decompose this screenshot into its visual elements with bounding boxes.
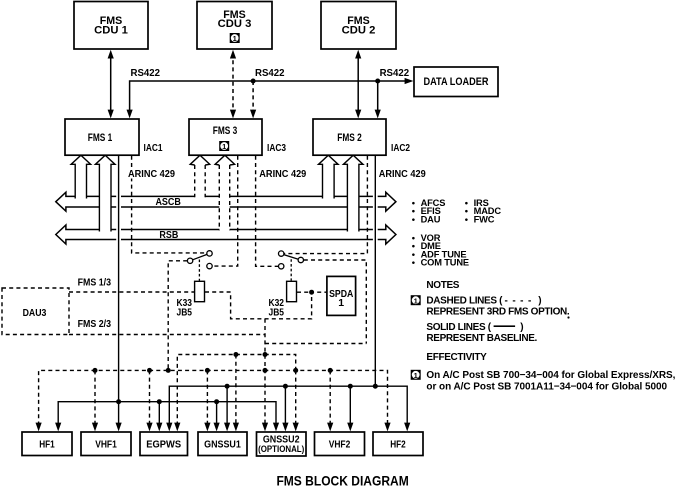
wire RS422 horizontal line — [130, 81, 407, 115]
wire D1 drop to GNSSU1 — [206, 370, 208, 425]
wire D1 drop to EGPWS — [149, 370, 151, 425]
svg-text:FMS BLOCK DIAGRAM: FMS BLOCK DIAGRAM — [276, 473, 408, 488]
box FMS CDU 2 — [321, 2, 396, 50]
junction dot RS422 at FMS3 drop — [251, 79, 256, 84]
arrowheads down into GNSSU1 — [204, 423, 239, 432]
bus label ASCB — [155, 196, 181, 208]
svg-text:FMS 3: FMS 3 — [213, 125, 238, 137]
svg-text:NOTES: NOTES — [426, 280, 459, 291]
wire RS422 drop to FMS2 — [377, 81, 379, 115]
relay K33 coil box — [195, 281, 205, 301]
label ARINC 429 under FMS3 — [258, 168, 307, 181]
svg-text:JB5: JB5 — [269, 307, 285, 319]
svg-text:1: 1 — [222, 142, 226, 151]
svg-text:EGPWS: EGPWS — [146, 438, 181, 450]
wire rail D1 — [39, 370, 388, 425]
svg-text:CDU 3: CDU 3 — [218, 18, 252, 30]
svg-text:): ) — [520, 322, 523, 333]
svg-text:HF1: HF1 — [39, 438, 55, 450]
wire H1 drop to EGPWS — [158, 402, 160, 426]
wire H2 drop to GNSSU1 — [226, 386, 228, 425]
wire K33 pole to D1 rail — [168, 261, 187, 371]
svg-text:FMS 1: FMS 1 — [88, 132, 113, 144]
svg-text:FMS 2: FMS 2 — [337, 132, 362, 144]
box VHF1 — [81, 432, 131, 456]
wire FMS3 line1 down to K33 lower throw — [213, 156, 238, 266]
wire RS422 drop to FMS3 dashed — [252, 81, 254, 115]
relay K33 lower throw circle — [207, 263, 212, 268]
wire FMS2 dashed to K32 upper throw — [284, 156, 367, 254]
svg-text:1: 1 — [338, 297, 344, 309]
relay K33 actuator dashed link — [198, 260, 200, 281]
svg-text:IAC1: IAC1 — [144, 142, 163, 154]
wire rail H1 solid — [58, 402, 276, 426]
junction dot D1-VHF1 — [93, 368, 98, 373]
box HF1 — [22, 432, 72, 456]
wire FMS 1/3 line DAU3 to K33 coil — [69, 291, 194, 293]
junction dot D1-GNSSU1 — [205, 368, 210, 373]
svg-text:(OPTIONAL): (OPTIONAL) — [258, 444, 304, 455]
label ARINC 429 under FMS2 — [378, 168, 427, 181]
svg-text:ARINC 429: ARINC 429 — [379, 168, 426, 180]
label RS422 right — [379, 67, 412, 79]
arrowheads down into GNSSU2 — [262, 423, 299, 432]
arrowheads down into FMS2 — [355, 110, 381, 119]
svg-text:FMS 2/3: FMS 2/3 — [78, 318, 112, 330]
svg-text:On A/C Post SB 700−34−004 for: On A/C Post SB 700−34−004 for Global Exp… — [426, 370, 675, 381]
hollow arrow FMS2 to RSB — [343, 155, 363, 231]
wire FMS1 solid line down to VHF1 — [118, 156, 120, 426]
box GNSSU2 (OPTIONAL) — [257, 432, 307, 456]
svg-text:ASCB: ASCB — [155, 196, 181, 208]
wire D1 drop to GNSSU2 right — [295, 370, 297, 425]
svg-text:RS422: RS422 — [380, 67, 410, 79]
effectivity icon 1 — [411, 370, 421, 380]
wire rail H2 solid — [169, 386, 407, 425]
svg-text:HF2: HF2 — [390, 438, 406, 450]
arrowhead up into CDU2 — [355, 50, 361, 59]
box FMS CDU 3 — [197, 2, 272, 50]
wire FMS1 dashed to K33 upper throw — [132, 156, 206, 253]
svg-text:ARINC 429: ARINC 429 — [128, 168, 175, 180]
label RS422 middle — [254, 67, 287, 79]
box GNSSU1 — [198, 432, 247, 456]
svg-text:DAU3: DAU3 — [23, 307, 47, 319]
wire K32 pole to D-1 rail — [304, 260, 367, 344]
heading EFFECTIVITY — [426, 352, 487, 363]
junction dot D1-VHF2 — [328, 368, 333, 373]
svg-text:DATA LOADER: DATA LOADER — [424, 76, 489, 88]
wire H1 drop to GNSSU1 — [216, 402, 218, 426]
arrowheads down into FMS3 — [230, 110, 256, 119]
svg-text:IAC2: IAC2 — [391, 142, 410, 154]
svg-text:CDU 2: CDU 2 — [342, 25, 376, 37]
white gap in bus edges where FMS1 solid wire crosses — [116, 195, 121, 241]
svg-text:FMS 1/3: FMS 1/3 — [78, 277, 112, 289]
box FMS CDU 1 — [74, 2, 148, 50]
hollow dashed arrow FMS3 to RSB — [215, 155, 235, 231]
arrowheads down into EGPWS — [146, 423, 180, 432]
junction dot H1-GNSSU1 — [214, 399, 219, 404]
wire CDU2-FMS2 double arrow — [357, 53, 359, 115]
junction dot D1-Va — [263, 368, 268, 373]
ASCB bus double-arrow band — [56, 192, 396, 211]
box SPDA 1 — [327, 276, 356, 315]
label K32 JB5 — [269, 297, 285, 319]
junction dot FMS2 line on H2 — [373, 384, 378, 389]
box FMS 2 — [313, 119, 386, 155]
arrowhead up into CDU1 — [108, 50, 114, 59]
box DAU3 dashed — [2, 288, 69, 335]
label IAC3 — [267, 142, 286, 154]
junction dot H2-GNSSU1 — [225, 384, 230, 389]
svg-text:•COM TUNE: •COM TUNE — [412, 258, 469, 268]
relay K32 lower throw circle — [279, 264, 284, 269]
bullet list VOR DME ADF COM — [412, 233, 469, 268]
wire CDU3-FMS3 double arrow dashed — [232, 53, 234, 115]
wire Va vertical to GNSSU2 — [264, 319, 266, 426]
relay K32 actuator dashed link — [290, 259, 292, 281]
note text solid lines — [426, 322, 537, 344]
junction dot D1-D0 — [293, 368, 298, 373]
white gap in bus edges where FMS2 solid wire crosses — [373, 195, 378, 241]
wire FMS 2/3 line DAU3 to Va — [69, 334, 265, 336]
junction dot RS422 at FMS2 drop — [375, 79, 380, 84]
wire rail D0 — [177, 355, 295, 426]
svg-text:1: 1 — [414, 371, 418, 380]
junction dot D0-GNSSU1 — [233, 352, 238, 357]
wire D1 drop to VHF1 — [94, 370, 96, 425]
box DATA LOADER — [414, 67, 498, 97]
hollow dashed arrow FMS3 to ASCB — [190, 155, 210, 198]
box FMS 3 — [189, 119, 262, 155]
svg-text:VHF1: VHF1 — [95, 438, 117, 450]
bus label RSB — [159, 229, 178, 241]
svg-text:1: 1 — [414, 296, 418, 305]
junction dot D1-K33 pole — [166, 368, 171, 373]
svg-text:JB5: JB5 — [177, 307, 193, 319]
svg-text:DASHED LINES ( - - - - ): DASHED LINES ( - - - - ) — [426, 296, 541, 307]
label ARINC 429 under FMS1 — [127, 168, 176, 181]
svg-text:REPRESENT 3RD FMS OPTION.: REPRESENT 3RD FMS OPTION. — [426, 307, 570, 318]
svg-text:1: 1 — [233, 34, 237, 43]
junction dot FMS1 line on H1 — [116, 399, 121, 404]
wire D1 drop to VHF2 — [329, 370, 331, 425]
arrowheads down into HF2 — [384, 423, 410, 432]
wire H2 drop to VHF2 — [349, 386, 351, 425]
bullet list IRS MADC FWC — [465, 198, 502, 225]
note icon 1 — [411, 295, 421, 305]
effectivity text — [426, 370, 675, 392]
relay K32 contacts: upper throw circle — [279, 251, 284, 256]
note text dashed lines — [426, 296, 570, 319]
svg-text:IAC3: IAC3 — [267, 142, 286, 154]
arrowhead right into DATA LOADER — [405, 78, 414, 84]
svg-text:GNSSU1: GNSSU1 — [204, 438, 241, 450]
svg-text:RSB: RSB — [159, 229, 178, 241]
junction dot H2-VHF2 — [348, 384, 353, 389]
junction dot SPDA input — [309, 290, 314, 295]
svg-text:REPRESENT BASELINE.: REPRESENT BASELINE. — [426, 333, 537, 344]
icon 1 in CDU3 — [230, 33, 240, 43]
wire FMS3 line2 down to K32 lower throw — [256, 156, 279, 266]
svg-text:RS422: RS422 — [131, 67, 161, 79]
label FMS 1/3 — [78, 277, 112, 289]
svg-text:or on A/C Post SB 7001A11−34−0: or on A/C Post SB 7001A11−34−004 for Glo… — [426, 381, 667, 392]
box HF2 — [373, 432, 423, 456]
svg-text:CDU 1: CDU 1 — [94, 25, 128, 37]
relay K32 coil box — [287, 281, 297, 301]
label K33 JB5 — [177, 297, 193, 319]
relay K32 switch arm — [284, 255, 299, 260]
wire FMS2 solid line down to H2 rail — [374, 156, 376, 386]
label FMS 2/3 — [78, 318, 112, 330]
relay K33 upper throw circle — [207, 251, 212, 256]
relay K33 contacts: pole circle — [187, 258, 192, 263]
label IAC1 — [144, 142, 163, 154]
wire K33 coil out to SPDA path — [205, 292, 326, 319]
arrowheads down into VHF1 — [92, 423, 122, 432]
svg-text:RS422: RS422 — [255, 67, 285, 79]
svg-text:ARINC 429: ARINC 429 — [259, 168, 306, 180]
svg-text:VHF2: VHF2 — [329, 438, 351, 450]
box FMS 1 — [65, 119, 139, 155]
svg-text:EFFECTIVITY: EFFECTIVITY — [426, 352, 487, 363]
junction dot D0-Va — [263, 352, 268, 357]
arrowheads down into VHF2 — [327, 423, 353, 432]
junction dot D1-EGPWS — [147, 368, 152, 373]
wire D0 drop to GNSSU1 — [235, 355, 237, 426]
icon 1 in FMS3 — [219, 141, 229, 151]
hollow arrow FMS2 to ASCB — [319, 155, 339, 198]
wire rail D-1 — [265, 343, 366, 345]
junction dot H2-GNSSU2 — [283, 384, 288, 389]
arrowhead up into CDU3 — [230, 50, 236, 59]
box VHF2 — [315, 432, 365, 456]
hollow arrow FMS1 to RSB — [95, 155, 115, 231]
wire H2 drop to GNSSU2 — [284, 386, 286, 425]
label RS422 left — [129, 67, 162, 79]
bullet list AFCS EFIS DAU — [412, 198, 446, 225]
wire K32 coil out to SPDA junction — [297, 291, 312, 293]
RSB bus double-arrow band — [56, 225, 396, 244]
box EGPWS — [140, 432, 188, 456]
arrowheads down into FMS1 — [108, 110, 133, 119]
hollow arrow FMS1 to ASCB — [71, 155, 91, 198]
relay K32 pole circle — [298, 257, 303, 262]
heading NOTES — [426, 280, 459, 291]
arrowheads down into HF1 — [36, 423, 62, 432]
svg-text:SOLID LINES (: SOLID LINES ( — [426, 322, 491, 333]
relay K33 switch arm — [193, 254, 207, 259]
caption FMS BLOCK DIAGRAM — [276, 473, 408, 488]
wire CDU1-FMS1 double arrow — [110, 53, 112, 115]
junction dot H1-EGPWS — [157, 399, 162, 404]
label IAC2 — [391, 142, 410, 154]
